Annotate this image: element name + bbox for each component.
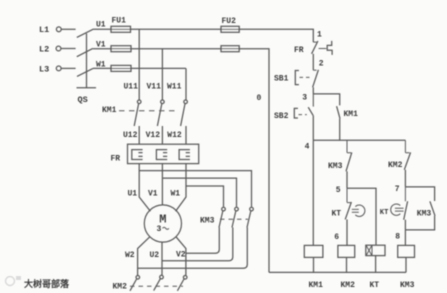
svg-text:V2: V2 <box>176 251 186 260</box>
svg-text:FU2: FU2 <box>222 17 237 26</box>
wire V1 to fuse FU1b <box>93 48 111 50</box>
wire node 7 branch to KM3 aux <box>405 187 434 201</box>
contactor KM3 aux NO contact (parallel) <box>430 201 435 216</box>
coil KM2 <box>338 245 355 257</box>
contactor KM3 main contact 2 <box>235 207 239 211</box>
fuse FU1 pole2 <box>111 46 131 52</box>
wire node 2 <box>312 54 314 70</box>
svg-text:KM1: KM1 <box>344 110 359 119</box>
contactor KM1 aux NO contact <box>337 106 340 118</box>
contactor KM3 NC contact (interlock) <box>347 140 351 153</box>
wire FR to motor W1 <box>176 164 186 212</box>
thermal relay FR box <box>128 144 199 163</box>
contactor KM3 linkage dashes <box>220 218 248 220</box>
wire star tap U <box>139 171 251 207</box>
svg-text:FR: FR <box>294 46 304 55</box>
wire FR to motor U1 <box>139 164 150 212</box>
svg-text:KM1: KM1 <box>309 281 324 290</box>
svg-text:U1: U1 <box>96 21 106 30</box>
wire star tap V <box>162 178 236 207</box>
FR heater element 1 <box>132 150 143 160</box>
terminal circle L1 <box>56 27 61 32</box>
wire FU2b to 0-rail corner <box>239 49 269 273</box>
pushbutton SB1 bracket <box>295 71 299 85</box>
wire U1 to fuse FU1a <box>94 28 112 30</box>
terminal circle L3 <box>56 66 61 71</box>
svg-text:KT: KT <box>380 209 389 217</box>
wire motor U2 down <box>161 242 163 275</box>
time relay KT delayed NO contact <box>347 188 351 202</box>
pushbutton SB1 NC contact <box>313 69 316 71</box>
svg-text:W11: W11 <box>167 83 182 92</box>
switch QS linkage <box>86 34 88 88</box>
KT delay symbol (left) <box>352 209 359 212</box>
svg-text:U1: U1 <box>128 190 138 199</box>
pushbutton SB2 NO contact <box>312 94 314 107</box>
svg-text:L3: L3 <box>39 64 49 74</box>
contactor KM2 NC contact (interlock) <box>405 140 409 153</box>
wire node 4 bus <box>313 139 405 141</box>
thermal relay FR NC contact <box>313 41 317 43</box>
pushbutton SB2 actuator dashes <box>299 114 307 116</box>
svg-text:大树哥部落: 大树哥部落 <box>24 278 70 290</box>
watermark bottom-left <box>6 276 71 290</box>
svg-text:KM2: KM2 <box>341 281 356 290</box>
svg-text:QS: QS <box>78 95 88 105</box>
terminal circle L2 <box>56 46 61 51</box>
svg-text:V11: V11 <box>147 83 162 92</box>
svg-text:7: 7 <box>395 185 400 194</box>
wire FR to motor V1 <box>161 164 163 205</box>
svg-text:3: 3 <box>302 94 307 103</box>
wire motor V2 down <box>176 237 186 275</box>
wire bottom bus <box>269 271 406 273</box>
FR heater element 3 <box>179 150 190 160</box>
svg-text:8: 8 <box>395 233 400 242</box>
svg-text:KM3: KM3 <box>400 281 415 290</box>
contactor KM2 main contact 3 <box>183 276 187 280</box>
svg-text:0: 0 <box>257 94 262 103</box>
wire W1 to fuse FU1c <box>93 67 111 69</box>
thermal relay FR element symbol <box>319 48 327 50</box>
svg-text:KM3: KM3 <box>200 217 215 226</box>
wire star tap W <box>186 186 224 207</box>
svg-text:6: 6 <box>334 233 339 242</box>
fuse FU2 pole2 <box>221 46 239 52</box>
pushbutton SB1 actuator dashes <box>300 76 311 78</box>
svg-text:KM3: KM3 <box>417 210 432 219</box>
svg-text:KM1: KM1 <box>102 106 117 115</box>
pushbutton SB2 bracket <box>294 108 298 118</box>
contactor KM1 linkage dashes <box>119 110 178 112</box>
svg-text:V12: V12 <box>146 131 161 140</box>
KT delay symbol (right) <box>395 208 404 211</box>
switch QS bottom bar <box>77 87 97 89</box>
fuse FU2 pole1 <box>221 26 239 32</box>
wire node 3 <box>312 87 314 94</box>
svg-text:L2: L2 <box>39 45 49 55</box>
wire SB2 to node 4 <box>312 116 314 141</box>
wire node3 branch to KM1 aux <box>313 94 339 106</box>
wire KT to node 6 and KM2 coil <box>346 219 348 245</box>
svg-text:V1: V1 <box>148 190 158 199</box>
wire FU2a to control rail corner <box>239 29 313 42</box>
wire L3 to switch <box>61 67 76 69</box>
svg-text:FU1: FU1 <box>112 17 127 26</box>
fuse FU1 pole3 <box>111 65 131 71</box>
svg-text:V1: V1 <box>96 40 106 49</box>
contactor KM2 main contact 1 <box>136 276 140 280</box>
contactor KM3 main contact 3 <box>250 207 254 211</box>
contactor KM2 main contact 2 <box>160 275 164 279</box>
contactor KM1 main contact 1 <box>137 100 141 104</box>
wire L1 to switch <box>61 28 76 30</box>
svg-text:KT: KT <box>370 281 380 290</box>
coil KM3 <box>398 245 415 257</box>
svg-text:SB1: SB1 <box>274 74 289 83</box>
FR heater element 2 <box>156 150 167 160</box>
svg-text:W2: W2 <box>125 251 135 260</box>
svg-text:KM2: KM2 <box>113 283 128 292</box>
svg-text:FR: FR <box>111 155 121 164</box>
svg-text:W12: W12 <box>167 131 182 140</box>
svg-text:2: 2 <box>319 59 324 68</box>
svg-text:5: 5 <box>336 186 341 195</box>
svg-text:W1: W1 <box>171 190 181 199</box>
svg-text:1: 1 <box>317 31 322 40</box>
wire fuse2 to FU2b <box>131 48 221 50</box>
svg-text:4: 4 <box>305 142 310 151</box>
time relay KT delayed NC contact (right) <box>404 187 406 201</box>
svg-text:U2: U2 <box>150 251 160 260</box>
coil KT with hourglass <box>366 245 385 255</box>
wire L2 to switch <box>61 48 76 50</box>
contactor KM2 linkage dashes <box>130 285 183 287</box>
svg-text:SB2: SB2 <box>274 112 289 121</box>
svg-text:U12: U12 <box>123 131 138 140</box>
svg-text:KM3: KM3 <box>328 162 343 171</box>
contactor KM1 main contact 3 <box>184 100 188 104</box>
wire fuse1 to FU2a <box>131 28 222 30</box>
wire column W11 <box>185 68 187 99</box>
svg-text:KT: KT <box>332 210 342 219</box>
coil KM1 <box>304 245 323 257</box>
switch QS blade pole2 <box>77 48 93 56</box>
svg-text:KM2: KM2 <box>388 161 403 170</box>
fuse FU1 pole1 <box>111 26 131 32</box>
wire column V11 <box>161 49 163 100</box>
wire node 5 branch <box>347 188 376 245</box>
svg-text:L1: L1 <box>39 25 49 35</box>
switch QS blade pole3 <box>77 68 93 76</box>
switch QS blade pole1 <box>77 29 94 37</box>
svg-text:U11: U11 <box>124 83 139 92</box>
motor M circle <box>144 205 181 242</box>
contactor KM1 main contact 2 <box>161 100 165 104</box>
contactor KM3 main contact 1 <box>222 207 226 211</box>
svg-text:3: 3 <box>157 225 162 234</box>
wire fuse3 to corner W11 <box>131 67 186 69</box>
wire column U11 <box>138 29 140 100</box>
wire motor W2 down <box>138 237 150 275</box>
wire KM1 coil rail <box>312 140 314 245</box>
